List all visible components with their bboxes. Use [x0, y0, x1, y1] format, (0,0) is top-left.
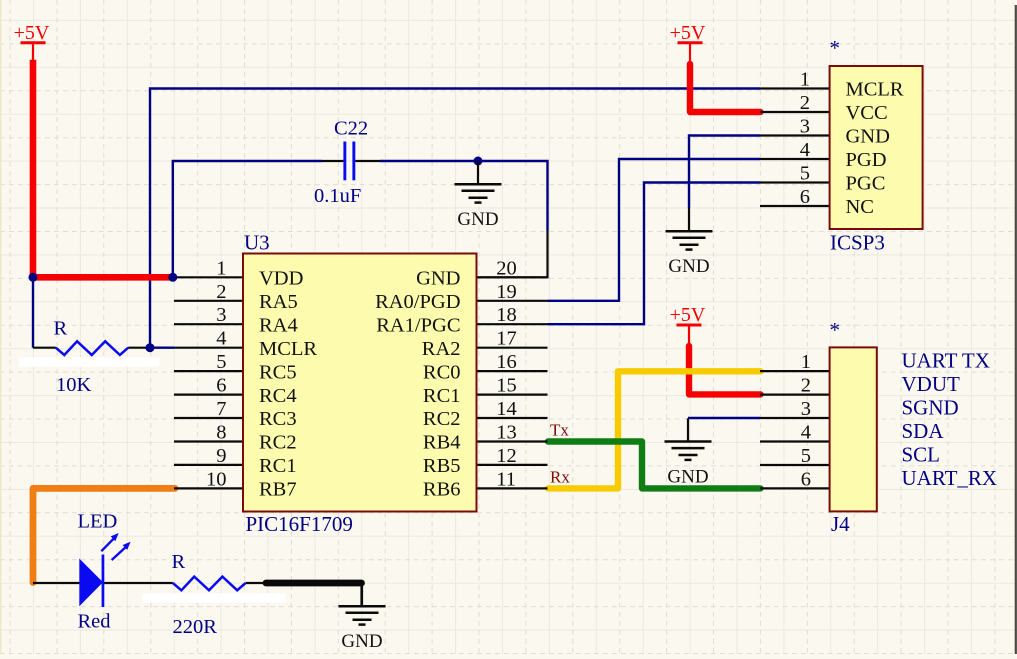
svg-text:GND: GND	[846, 126, 890, 148]
resistor R2 zigzag (220R)	[173, 577, 246, 591]
wire VDD to C22 net (vertical x=172.8)	[173, 161, 322, 277]
svg-text:Rx: Rx	[550, 468, 570, 487]
label net Tx	[550, 421, 569, 440]
svg-text:2: 2	[801, 375, 811, 397]
svg-text:PGC: PGC	[846, 173, 886, 195]
svg-text:MCLR: MCLR	[259, 338, 317, 360]
resistor R2 white underlay	[142, 594, 285, 603]
svg-text:RC1: RC1	[423, 385, 461, 407]
svg-text:RC5: RC5	[259, 361, 297, 383]
svg-text:GND: GND	[668, 256, 709, 277]
U3 right pin lines (pins 20-11)	[477, 277, 548, 488]
svg-text:GND: GND	[341, 631, 382, 652]
label LED color Red	[78, 611, 111, 633]
ground symbol (ICSP3 pin3)	[666, 208, 713, 277]
svg-text:220R: 220R	[173, 616, 218, 638]
thick orange wire U3 RB7 pin10 to LED	[33, 488, 175, 582]
svg-text:15: 15	[496, 375, 517, 397]
wire +5V down to resistor R (navy segment)	[32, 277, 34, 347]
label net Rx	[550, 468, 570, 487]
wire PGC net: ICSP3 pin5 to U3 pin18	[548, 183, 761, 325]
label R1 designator R	[54, 318, 68, 340]
junction MCLR/R	[146, 343, 155, 352]
U3 pin numbers 1-10	[206, 257, 227, 490]
power +5V symbol (J4)	[670, 304, 706, 346]
component J4 body	[830, 347, 877, 511]
svg-text:19: 19	[496, 281, 517, 303]
svg-text:RA4: RA4	[259, 314, 298, 336]
junction +5V/VDD corner	[29, 273, 38, 282]
wire C22 net to GND and pin20 (navy)	[380, 161, 548, 231]
svg-text:17: 17	[496, 328, 517, 350]
wire resistor left lead	[33, 347, 56, 349]
wire C22 right pin stub (black)	[355, 160, 380, 162]
svg-text:3: 3	[800, 116, 810, 138]
power +5V symbol (top-left)	[14, 22, 50, 64]
label R2 value 220R	[173, 616, 218, 638]
svg-text:12: 12	[496, 445, 517, 467]
svg-text:SGND: SGND	[902, 396, 959, 420]
ICSP3 pin lines (pins 1-6)	[760, 89, 830, 207]
label ICSP3 star	[830, 36, 841, 60]
wire GND stub (LED row)	[360, 583, 362, 605]
ground symbol (C22 net)	[455, 161, 502, 230]
junction C22 net GND	[474, 157, 483, 166]
svg-text:2: 2	[800, 92, 810, 114]
svg-text:RB5: RB5	[423, 455, 461, 477]
svg-text:R: R	[172, 551, 186, 573]
svg-text:1: 1	[216, 257, 226, 279]
power +5V symbol (ICSP3)	[670, 22, 706, 64]
capacitor C22 plates	[343, 142, 355, 181]
svg-text:U3: U3	[244, 231, 270, 255]
svg-text:1: 1	[801, 351, 811, 373]
label C22 designator	[334, 118, 368, 140]
svg-text:10: 10	[206, 468, 227, 490]
thick yellow wire Rx net: U3 RB6 pin11 to J4 pin1	[548, 371, 761, 488]
svg-text:PGD: PGD	[846, 149, 887, 171]
svg-text:RB4: RB4	[423, 432, 461, 454]
svg-text:RC2: RC2	[259, 432, 297, 454]
svg-text:3: 3	[216, 304, 226, 326]
svg-text:5: 5	[800, 163, 810, 185]
svg-text:0.1uF: 0.1uF	[314, 185, 361, 207]
svg-text:8: 8	[216, 422, 226, 444]
LED D1 triangle and cathode bar	[79, 555, 104, 608]
ground symbol (LED resistor)	[339, 583, 386, 652]
ground symbol (J4 SGND)	[665, 418, 712, 487]
svg-text:VCC: VCC	[846, 102, 888, 124]
svg-text:NC: NC	[846, 196, 874, 218]
svg-text:6: 6	[800, 186, 810, 208]
svg-text:5: 5	[801, 445, 811, 467]
component ICSP3 body	[830, 66, 923, 229]
wire resistor right lead to junction	[128, 347, 174, 349]
resistor R2 lead	[246, 582, 267, 584]
wire pin20 elbow (black)	[477, 231, 548, 278]
svg-text:LED: LED	[78, 511, 118, 533]
thick black wire to GND (LED row)	[266, 580, 362, 587]
svg-text:4: 4	[216, 328, 226, 350]
LED D1 arrows	[101, 533, 130, 560]
thick red wire +5V to ICSP3 VCC pin2	[690, 64, 761, 112]
thick green wire Tx net: U3 RB4 pin13 to J4 pin6	[548, 442, 761, 489]
svg-text:GND: GND	[667, 467, 708, 488]
svg-text:9: 9	[216, 445, 226, 467]
svg-text:SDA: SDA	[902, 419, 945, 443]
svg-text:11: 11	[496, 468, 516, 490]
thick red wire +5V to J4 VDUT pin2	[689, 346, 761, 394]
svg-text:UART TX: UART TX	[902, 349, 990, 373]
svg-text:4: 4	[801, 422, 811, 444]
svg-text:1: 1	[800, 69, 810, 91]
U3 left pin lines (pins 1-10)	[174, 277, 243, 488]
label U3 designator	[244, 231, 270, 255]
svg-text:SCL: SCL	[902, 443, 941, 467]
wire ICSP3 pin3 to GND	[689, 136, 760, 209]
resistor R1 white underlay	[19, 357, 160, 366]
svg-text:ICSP3: ICSP3	[830, 231, 885, 255]
wire MCLR net: vertical + horizontal to ICSP3 pin1	[150, 89, 760, 348]
ICSP3 pin numbers 1-6	[800, 69, 810, 209]
label LED	[78, 511, 118, 533]
svg-text:RA0/PGD: RA0/PGD	[375, 291, 460, 313]
J4 pin numbers 1-6	[801, 351, 811, 490]
svg-text:6: 6	[801, 468, 811, 490]
J4 net labels	[902, 349, 998, 490]
svg-text:+5V: +5V	[670, 22, 706, 44]
svg-text:RA5: RA5	[259, 291, 298, 313]
svg-text:MCLR: MCLR	[846, 79, 904, 101]
label R1 value 10K	[56, 374, 92, 396]
J4 pin lines (pins 1-6)	[760, 371, 830, 488]
svg-text:+5V: +5V	[14, 22, 50, 44]
svg-text:RC0: RC0	[423, 361, 461, 383]
label U3 part PIC16F1709	[246, 512, 353, 536]
svg-text:RC2: RC2	[423, 408, 461, 430]
svg-text:18: 18	[496, 304, 517, 326]
svg-text:16: 16	[496, 351, 517, 373]
svg-text:6: 6	[216, 375, 226, 397]
svg-text:VDD: VDD	[259, 268, 303, 290]
svg-text:VDUT: VDUT	[902, 372, 960, 396]
svg-text:2: 2	[216, 281, 226, 303]
svg-text:3: 3	[801, 398, 811, 420]
U3 pin numbers 20-11	[496, 257, 517, 490]
junction VDD pin1	[168, 273, 177, 282]
label J4 star	[830, 318, 841, 342]
svg-text:*: *	[830, 318, 841, 342]
svg-text:RB6: RB6	[423, 479, 461, 501]
ICSP3 pin names	[846, 79, 904, 219]
svg-text:RC4: RC4	[259, 385, 297, 407]
svg-text:R: R	[54, 318, 68, 340]
svg-text:C22: C22	[334, 118, 368, 140]
svg-text:RC1: RC1	[259, 455, 297, 477]
resistor R1 zigzag (10K)	[56, 341, 128, 355]
svg-text:10K: 10K	[56, 374, 92, 396]
svg-text:GND: GND	[457, 209, 498, 230]
svg-text:*: *	[830, 36, 841, 60]
thick red wire +5V to U3 VDD pin1	[33, 63, 172, 277]
svg-text:+5V: +5V	[670, 304, 706, 326]
wire J4 pin3 SGND to GND	[688, 417, 760, 419]
svg-text:Red: Red	[78, 611, 111, 633]
U3 pin names right	[375, 268, 460, 501]
svg-text:J4: J4	[831, 512, 850, 536]
svg-text:RB7: RB7	[259, 479, 297, 501]
svg-text:7: 7	[216, 398, 226, 420]
svg-text:Tx: Tx	[550, 421, 569, 440]
label ICSP3 designator	[830, 231, 885, 255]
svg-text:20: 20	[496, 257, 517, 279]
svg-text:RC3: RC3	[259, 408, 297, 430]
svg-text:RA1/PGC: RA1/PGC	[376, 314, 460, 336]
label J4 designator	[831, 512, 850, 536]
svg-text:GND: GND	[416, 268, 460, 290]
U3 pin names left	[259, 268, 317, 501]
wire PGD net: ICSP3 pin4 to U3 pin19	[548, 159, 761, 301]
wire C22 left pin stub (black)	[322, 160, 343, 162]
svg-text:RA2: RA2	[422, 338, 461, 360]
svg-text:5: 5	[216, 351, 226, 373]
svg-text:UART_RX: UART_RX	[902, 466, 998, 490]
label R2 designator R	[172, 551, 186, 573]
svg-text:14: 14	[496, 398, 517, 420]
LED D1 wires	[33, 582, 173, 584]
svg-text:4: 4	[800, 139, 810, 161]
svg-text:13: 13	[496, 422, 517, 444]
label C22 value 0.1uF	[314, 185, 361, 207]
component U3 body (PIC16F1709)	[243, 254, 477, 512]
svg-text:PIC16F1709: PIC16F1709	[246, 512, 353, 536]
